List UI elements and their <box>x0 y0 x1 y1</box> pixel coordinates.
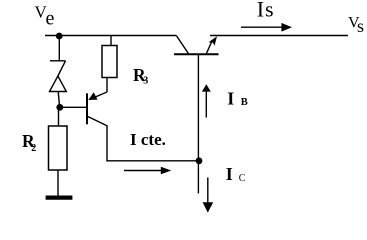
svg-text:3: 3 <box>143 76 148 87</box>
svg-text:B: B <box>241 97 248 108</box>
svg-text:I: I <box>227 88 234 108</box>
svg-text:C: C <box>239 173 246 184</box>
svg-text:s: s <box>265 0 274 21</box>
svg-text:2: 2 <box>31 143 36 154</box>
svg-text:I: I <box>226 164 233 184</box>
svg-text:I: I <box>257 0 264 21</box>
svg-text:e: e <box>46 7 55 29</box>
svg-text:I cte.: I cte. <box>130 130 166 149</box>
svg-text:s: s <box>357 16 364 36</box>
